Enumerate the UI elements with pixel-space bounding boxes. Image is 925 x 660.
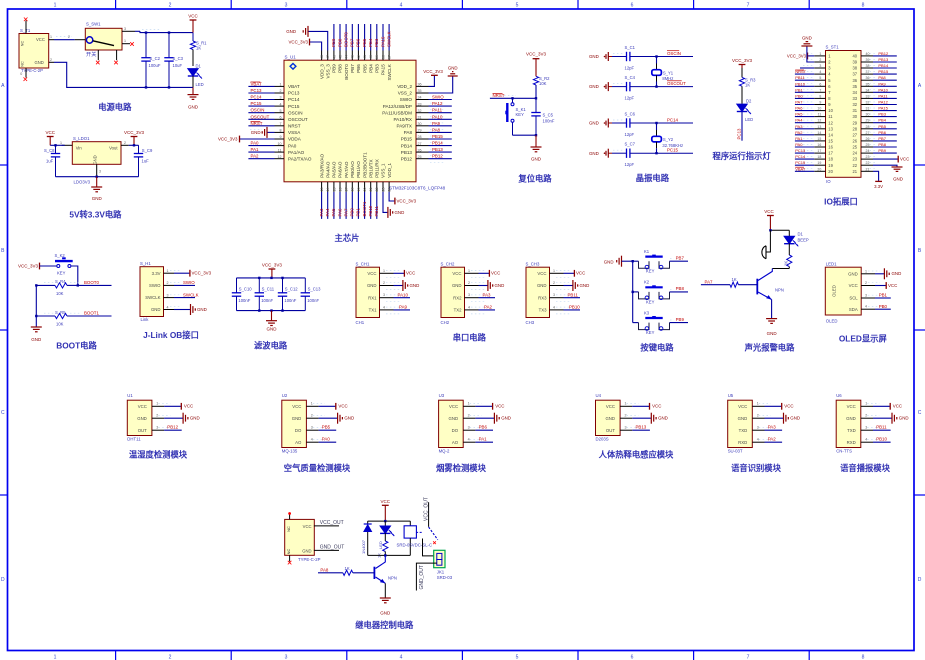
- caption 人体热释电感应模块: [599, 450, 674, 460]
- svg-text:GND: GND: [589, 84, 599, 89]
- LED D1 BEEP: [784, 230, 809, 255]
- svg-text:GND: GND: [589, 54, 599, 59]
- svg-text:S_K2: S_K2: [55, 253, 66, 258]
- svg-text:19: 19: [357, 188, 361, 192]
- switch label 开关: [86, 50, 96, 58]
- svg-text:22: 22: [852, 163, 857, 168]
- svg-text:3: 3: [285, 655, 288, 660]
- svg-text:5V转3.3V电路: 5V转3.3V电路: [69, 210, 122, 220]
- svg-text:PA7: PA7: [795, 100, 803, 105]
- svg-text:19: 19: [817, 161, 821, 165]
- svg-text:BOOT1: BOOT1: [84, 311, 99, 316]
- power VCC at OLED pin 2: [875, 282, 897, 289]
- svg-text:S_C8: S_C8: [44, 148, 55, 153]
- svg-text:PB3: PB3: [878, 112, 886, 117]
- svg-text:烟雾检测模块: 烟雾检测模块: [436, 463, 486, 473]
- svg-text:14: 14: [828, 132, 833, 137]
- svg-text:PC13: PC13: [737, 128, 742, 140]
- svg-text:VCC: VCC: [138, 404, 147, 409]
- svg-text:RXD: RXD: [738, 440, 747, 445]
- svg-text:PB9: PB9: [332, 64, 337, 73]
- relay pole wire to JK1: [423, 539, 434, 556]
- svg-text:U6: U6: [836, 393, 842, 398]
- net label PB7 (K1): [670, 256, 684, 261]
- svg-text:PB12: PB12: [878, 51, 889, 56]
- svg-text:VSS_1: VSS_1: [381, 163, 386, 178]
- svg-text:TXD: TXD: [847, 428, 856, 433]
- power 3.3V at IO pin 21: [873, 171, 883, 189]
- svg-text:GND: GND: [449, 416, 459, 421]
- svg-text:VCC: VCC: [338, 404, 347, 409]
- ground at VSS_1 bottom pin: [383, 192, 404, 218]
- svg-text:4: 4: [819, 70, 821, 74]
- IO header right net labels: [873, 51, 897, 153]
- net label PC14: [667, 117, 679, 122]
- svg-text:S_Y1: S_Y1: [663, 70, 674, 75]
- svg-text:1uF: 1uF: [46, 159, 54, 164]
- svg-text:26: 26: [418, 148, 422, 152]
- svg-text:DO: DO: [452, 428, 459, 433]
- svg-text:继电器控制电路: 继电器控制电路: [355, 620, 414, 630]
- svg-text:PB11: PB11: [568, 292, 579, 297]
- svg-text:GND: GND: [448, 65, 458, 70]
- svg-text:1: 1: [819, 52, 821, 56]
- svg-text:SDA: SDA: [849, 307, 858, 312]
- svg-text:23: 23: [852, 157, 857, 162]
- net label PA1 at U3 pin 4: [475, 437, 493, 443]
- svg-text:VCC: VCC: [495, 404, 504, 409]
- net GND_OUT wire to JK1: [416, 563, 436, 590]
- svg-text:12pF: 12pF: [625, 96, 635, 101]
- svg-text:45: 45: [338, 55, 342, 59]
- alarm emitter to ground: [771, 300, 773, 319]
- svg-text:S_CH3: S_CH3: [526, 261, 540, 266]
- svg-text:22: 22: [866, 161, 870, 165]
- svg-text:26: 26: [852, 139, 857, 144]
- module U3 (MQ-2) body: [439, 393, 482, 453]
- svg-text:DO: DO: [295, 428, 302, 433]
- svg-text:GND_OUT: GND_OUT: [320, 544, 344, 550]
- svg-text:OSCOUT: OSCOUT: [288, 117, 308, 122]
- svg-text:4: 4: [468, 437, 470, 441]
- svg-text:VCC_3V3: VCC_3V3: [423, 69, 443, 74]
- svg-text:PB0/AO: PB0/AO: [350, 161, 355, 178]
- power VCC_3V3 at H1 pin 1: [174, 270, 212, 277]
- svg-text:GND: GND: [292, 416, 302, 421]
- net label SWCLK (H1): [174, 292, 199, 297]
- svg-text:15: 15: [817, 137, 821, 141]
- svg-text:1K: 1K: [196, 45, 201, 50]
- svg-text:PA0: PA0: [795, 142, 803, 147]
- svg-text:VSS_2: VSS_2: [398, 91, 413, 96]
- svg-text:PC14: PC14: [288, 97, 300, 102]
- svg-text:6: 6: [819, 82, 821, 86]
- svg-text:AO: AO: [452, 440, 459, 445]
- svg-text:PA11: PA11: [878, 93, 888, 98]
- svg-text:32: 32: [866, 101, 870, 105]
- svg-text:U3: U3: [439, 393, 445, 398]
- no-connect top pin of T2: [288, 512, 291, 519]
- IO header left net labels: [795, 69, 814, 171]
- svg-text:1: 1: [757, 402, 759, 406]
- svg-text:31: 31: [418, 116, 422, 120]
- svg-text:3: 3: [865, 294, 867, 298]
- svg-text:11: 11: [828, 114, 833, 119]
- filter top rail: [237, 277, 306, 279]
- wire T1 VCC to switch: [54, 35, 75, 40]
- svg-text:GND: GND: [899, 416, 909, 421]
- svg-text:STM32F103C8T6_LQFP48: STM32F103C8T6_LQFP48: [389, 186, 446, 191]
- ground rail of LDO block: [56, 176, 139, 178]
- svg-text:S_C3: S_C3: [173, 56, 184, 61]
- svg-text:VCC: VCC: [738, 404, 747, 409]
- svg-text:2: 2: [68, 35, 70, 39]
- svg-text:12pF: 12pF: [625, 66, 635, 71]
- svg-text:CH3: CH3: [526, 320, 535, 325]
- svg-text:PA1: PA1: [251, 147, 260, 152]
- svg-text:PB0: PB0: [795, 93, 803, 98]
- svg-text:KEY: KEY: [646, 330, 655, 335]
- svg-text:28: 28: [418, 135, 422, 139]
- svg-text:1: 1: [865, 269, 867, 273]
- svg-text:VCC: VCC: [764, 209, 774, 214]
- svg-text:VCC: VCC: [606, 404, 615, 409]
- ground at U5 pin 2: [765, 413, 801, 424]
- svg-text:1: 1: [865, 402, 867, 406]
- resistor R5 10K: [36, 310, 111, 327]
- svg-text:PB10: PB10: [795, 81, 806, 86]
- svg-text:17: 17: [817, 149, 821, 153]
- svg-text:12pF: 12pF: [625, 162, 635, 167]
- svg-text:S_C1: S_C1: [625, 45, 636, 50]
- svg-text:6: 6: [631, 3, 634, 9]
- svg-text:S_R5: S_R5: [55, 310, 66, 315]
- power port VCC_3V3 (LDO out): [124, 130, 145, 145]
- svg-text:43: 43: [351, 55, 355, 59]
- svg-text:SWCLK: SWCLK: [145, 295, 160, 300]
- svg-text:滤波电路: 滤波电路: [254, 340, 288, 350]
- svg-text:BOOT0: BOOT0: [344, 64, 349, 80]
- net label PB11 at U6 pin 3: [873, 425, 891, 431]
- svg-text:D203S: D203S: [596, 436, 609, 441]
- svg-text:VCC: VCC: [406, 271, 415, 276]
- svg-text:PB13: PB13: [401, 150, 413, 155]
- net label PB11 at CH3 pin 3: [564, 292, 581, 297]
- svg-text:VCC: VCC: [893, 404, 902, 409]
- svg-text:NC: NC: [286, 549, 291, 555]
- svg-text:44: 44: [345, 55, 349, 59]
- J-Link header H1 body: [140, 261, 181, 322]
- power port VCC (power block): [188, 14, 198, 33]
- svg-text:PB8: PB8: [878, 142, 886, 147]
- net label OSCIN: [667, 51, 681, 56]
- svg-text:PA4/AO: PA4/AO: [325, 161, 330, 178]
- svg-text:35: 35: [418, 89, 422, 93]
- svg-text:A: A: [1, 83, 5, 89]
- svg-text:GND: GND: [589, 151, 599, 156]
- svg-text:2: 2: [311, 413, 313, 417]
- svg-text:2: 2: [865, 281, 867, 285]
- svg-text:PA9: PA9: [432, 121, 441, 126]
- svg-text:S_CH2: S_CH2: [441, 261, 455, 266]
- svg-text:100nF: 100nF: [261, 298, 273, 303]
- svg-text:GND: GND: [93, 155, 98, 164]
- svg-text:1uF: 1uF: [142, 159, 150, 164]
- svg-text:25: 25: [852, 145, 857, 150]
- svg-text:VSS_3: VSS_3: [325, 64, 330, 79]
- svg-text:RXD: RXD: [847, 440, 856, 445]
- push button K1 (reset): [505, 97, 526, 135]
- svg-text:VCC: VCC: [303, 524, 312, 529]
- svg-text:GND: GND: [580, 283, 590, 288]
- svg-text:RX1: RX1: [368, 295, 377, 300]
- svg-text:GND: GND: [892, 271, 902, 276]
- svg-text:VCC: VCC: [491, 271, 500, 276]
- svg-text:10: 10: [817, 107, 821, 111]
- svg-text:GND: GND: [452, 283, 462, 288]
- svg-text:3: 3: [819, 64, 821, 68]
- svg-text:VCC_3V3: VCC_3V3: [787, 53, 807, 58]
- svg-text:VCC_3V3: VCC_3V3: [124, 130, 145, 135]
- svg-text:1: 1: [156, 402, 158, 406]
- svg-text:IO: IO: [826, 179, 831, 184]
- svg-text:4: 4: [383, 305, 385, 309]
- svg-text:S_T1: S_T1: [20, 28, 31, 33]
- svg-text:PB6: PB6: [356, 38, 361, 47]
- svg-text:PB13: PB13: [432, 147, 443, 152]
- svg-text:19: 19: [828, 163, 833, 168]
- svg-text:13: 13: [817, 125, 821, 129]
- svg-text:U2: U2: [282, 393, 288, 398]
- svg-text:CH2: CH2: [441, 320, 450, 325]
- svg-text:PA15: PA15: [380, 36, 385, 47]
- svg-text:40: 40: [369, 55, 373, 59]
- no-connect bottom pin of T1: [20, 68, 27, 81]
- svg-text:S_H1: S_H1: [140, 261, 151, 266]
- ground at OLED pin 1: [875, 268, 901, 279]
- svg-text:GND: GND: [267, 327, 278, 332]
- net label PB10 at CH3 pin 4: [564, 305, 581, 310]
- svg-text:主芯片: 主芯片: [335, 233, 360, 243]
- svg-text:PA7/AO: PA7/AO: [344, 161, 349, 178]
- svg-text:VBAT: VBAT: [288, 84, 300, 89]
- svg-text:语音播报模块: 语音播报模块: [840, 463, 890, 473]
- svg-text:GND: GND: [137, 416, 147, 421]
- svg-text:OLED显示屏: OLED显示屏: [839, 334, 888, 344]
- svg-text:33: 33: [866, 94, 870, 98]
- svg-text:GND: GND: [197, 307, 207, 312]
- svg-text:4: 4: [311, 437, 313, 441]
- svg-text:39: 39: [375, 55, 379, 59]
- svg-text:GND: GND: [531, 157, 542, 162]
- svg-text:S_C4: S_C4: [625, 75, 636, 80]
- svg-text:10: 10: [828, 108, 833, 113]
- svg-text:3: 3: [553, 293, 555, 297]
- connector T1 (TYPE-C-2P): [19, 28, 49, 73]
- svg-text:34: 34: [866, 88, 870, 92]
- svg-text:PA5: PA5: [331, 208, 336, 217]
- OLED module LED1 body: [825, 261, 880, 323]
- svg-text:PB9: PB9: [878, 148, 886, 153]
- svg-text:TX2: TX2: [454, 308, 462, 313]
- svg-text:3: 3: [99, 170, 101, 174]
- svg-text:25: 25: [418, 155, 422, 159]
- relay top rail: [368, 520, 411, 522]
- module U2 (MQ-135) body: [282, 393, 325, 453]
- power VCC at U3 pin 1: [475, 403, 504, 410]
- net label OSCOUT: [667, 81, 686, 86]
- svg-text:VCC: VCC: [184, 404, 193, 409]
- svg-text:Vin: Vin: [76, 146, 83, 151]
- svg-text:S_C6: S_C6: [625, 112, 636, 117]
- svg-text:GND: GND: [589, 121, 599, 126]
- relay emitter to ground: [384, 583, 386, 598]
- crystal Y1 8MHz: [652, 55, 674, 88]
- svg-text:KEY: KEY: [646, 269, 655, 274]
- svg-text:GND: GND: [92, 196, 103, 201]
- svg-text:GND: GND: [188, 105, 199, 110]
- svg-text:PB5: PB5: [322, 425, 331, 430]
- svg-text:PA11: PA11: [432, 108, 443, 113]
- svg-text:K3: K3: [644, 310, 650, 315]
- svg-text:PB15: PB15: [432, 134, 443, 139]
- svg-text:2: 2: [169, 655, 172, 660]
- svg-text:PA11/USB/DM: PA11/USB/DM: [382, 110, 412, 115]
- svg-text:OSCOUT: OSCOUT: [667, 81, 686, 86]
- capacitor C9 1uF: [134, 145, 153, 176]
- svg-text:PA9/TX: PA9/TX: [397, 124, 413, 129]
- net label PA10 at CH1 pin 3: [394, 292, 411, 297]
- svg-text:3: 3: [865, 425, 867, 429]
- svg-text:PB14: PB14: [401, 143, 413, 148]
- power VCC_3V3 at IO pin 1: [787, 53, 814, 60]
- svg-text:BOOT1: BOOT1: [362, 201, 367, 216]
- svg-text:PB13: PB13: [878, 57, 889, 62]
- module U1 (DHT11) body: [127, 393, 170, 441]
- svg-text:PA5/AO: PA5/AO: [332, 161, 337, 178]
- chip bottom net wires and labels: [319, 192, 379, 219]
- svg-text:GND: GND: [35, 60, 44, 65]
- wire switch to VCC rail: [135, 30, 193, 33]
- chip left net wires and labels: [248, 81, 274, 158]
- ground at U1 pin 2: [164, 413, 200, 424]
- power VCC at U5 pin 1: [765, 403, 794, 410]
- svg-text:5: 5: [280, 109, 282, 113]
- svg-text:PB4: PB4: [878, 118, 886, 123]
- svg-text:VCC: VCC: [888, 283, 897, 288]
- svg-text:4: 4: [757, 437, 759, 441]
- module U5 (SU-03T) body: [728, 393, 771, 453]
- capacitor C5 100nF: [531, 97, 555, 135]
- power VCC at CH1 pin 1: [394, 270, 416, 277]
- net label PA9 at CH1 pin 4: [394, 305, 411, 310]
- wire LDO Vout to VCC_3V3: [129, 144, 139, 146]
- alarm top rail: [769, 229, 789, 231]
- svg-text:S_U1: S_U1: [285, 54, 297, 59]
- svg-text:3: 3: [280, 96, 282, 100]
- svg-text:GND: GND: [738, 416, 748, 421]
- svg-text:VCC: VCC: [900, 157, 909, 162]
- push button K1: [633, 249, 688, 274]
- svg-text:7: 7: [280, 122, 282, 126]
- svg-text:S_C2: S_C2: [150, 56, 161, 61]
- svg-text:PB12: PB12: [167, 425, 178, 430]
- svg-text:4: 4: [553, 305, 555, 309]
- svg-text:JK1: JK1: [437, 569, 445, 574]
- svg-text:10K: 10K: [539, 81, 547, 86]
- svg-text:温湿度检测模块: 温湿度检测模块: [129, 450, 188, 460]
- svg-text:5: 5: [819, 76, 821, 80]
- svg-text:8: 8: [280, 129, 282, 133]
- svg-text:PA1/AO: PA1/AO: [288, 150, 305, 155]
- svg-text:RX3: RX3: [538, 295, 547, 300]
- svg-text:OLED: OLED: [831, 285, 836, 297]
- svg-text:PB10: PB10: [368, 205, 373, 216]
- svg-text:16: 16: [338, 188, 342, 192]
- caption 语音播报模块: [840, 463, 890, 473]
- svg-text:VDDA: VDDA: [288, 137, 302, 142]
- svg-text:7: 7: [747, 655, 750, 660]
- svg-text:4: 4: [865, 305, 867, 309]
- svg-text:1: 1: [124, 39, 126, 43]
- svg-text:OUT: OUT: [606, 428, 615, 433]
- svg-text:27: 27: [866, 131, 870, 135]
- svg-text:OUT: OUT: [138, 428, 147, 433]
- svg-text:8MHz: 8MHz: [662, 76, 673, 81]
- svg-text:8: 8: [819, 94, 821, 98]
- power port VCC_3V3 (reset): [526, 52, 547, 77]
- caption 空气质量检测模块: [284, 463, 351, 473]
- svg-text:10K: 10K: [56, 291, 64, 296]
- resistor R3 1K: [739, 77, 756, 103]
- caption 按键电路: [640, 343, 674, 353]
- svg-text:PC15: PC15: [288, 104, 300, 109]
- svg-text:16: 16: [828, 145, 833, 150]
- chip right net wires and labels: [429, 95, 452, 163]
- svg-text:PB10: PB10: [569, 305, 580, 310]
- svg-text:21: 21: [866, 167, 870, 171]
- svg-text:GND: GND: [251, 130, 261, 135]
- svg-text:PA10: PA10: [432, 114, 443, 119]
- svg-text:39: 39: [852, 60, 857, 65]
- svg-text:S_C9: S_C9: [142, 148, 153, 153]
- svg-text:2: 2: [124, 141, 126, 145]
- svg-text:28: 28: [852, 126, 857, 131]
- svg-text:SU-03T: SU-03T: [728, 448, 743, 453]
- svg-text:A: A: [918, 83, 922, 89]
- svg-text:Vout: Vout: [109, 146, 118, 151]
- svg-text:VCC: VCC: [537, 271, 546, 276]
- net label PB10 at U6 pin 4: [873, 437, 891, 443]
- svg-text:PB2/BOOT1: PB2/BOOT1: [362, 152, 367, 178]
- svg-text:40: 40: [852, 54, 857, 59]
- power port VCC (LDO in): [45, 130, 55, 145]
- svg-text:U1: U1: [127, 393, 133, 398]
- ground at U2 pin 2: [319, 413, 355, 424]
- svg-text:VCC: VCC: [449, 404, 458, 409]
- svg-text:OSCIN: OSCIN: [251, 108, 265, 113]
- svg-text:15: 15: [828, 139, 833, 144]
- svg-text:36: 36: [418, 83, 422, 87]
- svg-text:SCL: SCL: [849, 296, 858, 301]
- svg-text:BEEP: BEEP: [798, 237, 809, 242]
- svg-text:12: 12: [828, 120, 833, 125]
- svg-text:1: 1: [60, 141, 62, 145]
- svg-text:1N4007: 1N4007: [361, 539, 366, 554]
- svg-text:PA2: PA2: [768, 437, 777, 442]
- svg-text:S_C7: S_C7: [625, 142, 636, 147]
- ground at H1 pin 4: [174, 304, 207, 315]
